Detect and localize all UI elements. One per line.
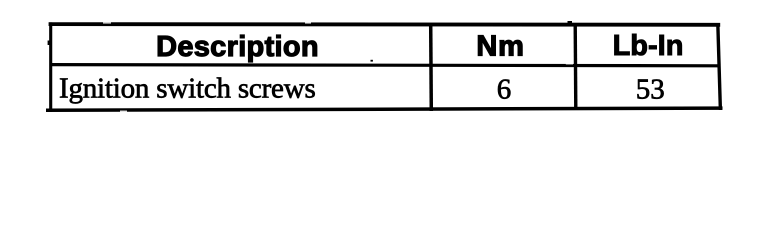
header separator line <box>50 65 720 66</box>
table outer border right <box>718 23 721 110</box>
svg-text:Nm: Nm <box>476 30 524 62</box>
table outer border left <box>49 22 52 111</box>
scan nick on bottom border <box>120 111 127 112</box>
scan nick on top border <box>103 22 111 23</box>
svg-text:Description: Description <box>156 31 319 63</box>
scan nick on top border 2 <box>305 22 311 23</box>
column divider 2 (Nm | Lb-In) <box>574 23 578 110</box>
scan speck above header separator <box>371 60 373 62</box>
column divider 1 (Description | Nm) <box>429 24 433 111</box>
svg-text:53: 53 <box>636 73 665 105</box>
scan gap in separator left of divider 2 <box>566 62 573 64</box>
svg-text:6: 6 <box>497 73 512 105</box>
scan speck on left border <box>48 41 50 46</box>
svg-text:Ignition switch screws: Ignition switch screws <box>59 73 316 105</box>
table outer border top <box>49 22 721 26</box>
svg-text:Lb-In: Lb-In <box>613 30 684 62</box>
table outer border bottom <box>46 108 723 110</box>
scan speck above top border near divider 2 <box>568 21 573 23</box>
